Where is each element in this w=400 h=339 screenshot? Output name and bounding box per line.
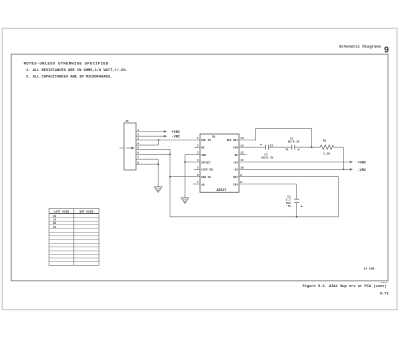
svg-text:68/6.3V: 68/6.3V (261, 156, 273, 160)
U1 unconnected stubs pins 2,5,7,12 (193, 147, 247, 184)
svg-text:R1: R1 (323, 140, 327, 143)
svg-text:P/O-3: P/O-3 (381, 281, 388, 284)
svg-text:SDH: SDH (201, 154, 206, 157)
svg-text:7: 7 (197, 181, 199, 184)
wire J1-6 tee (136, 154, 171, 156)
svg-text:3.3K: 3.3K (323, 152, 330, 155)
wire J1-2 to -VRC (136, 135, 180, 140)
wire U1 pin9 out (239, 176, 339, 178)
U1 right pin labels (227, 139, 238, 186)
svg-text:NOT USED: NOT USED (79, 211, 93, 214)
wire C2 to C3 (268, 146, 291, 148)
svg-text:Schematic Diagrams: Schematic Diagrams (339, 45, 382, 50)
svg-text:LAST USED: LAST USED (54, 211, 70, 214)
svg-text:C3: C3 (53, 215, 57, 218)
svg-text:-VRC: -VRC (172, 136, 180, 140)
header chapter number 9 (384, 45, 389, 55)
svg-text:9-73: 9-73 (380, 292, 389, 296)
svg-text:+VRC: +VRC (358, 161, 367, 165)
svg-text:8: 8 (240, 181, 242, 184)
svg-text:2. ALL CAPACITANCES ARE IN MIC: 2. ALL CAPACITANCES ARE IN MICROFARADS. (26, 75, 112, 79)
svg-text:-VS: -VS (233, 169, 238, 172)
wire bottom return bus (170, 177, 339, 217)
svg-text:J1: J1 (125, 119, 129, 123)
wire U1 pin14 buffer loop (239, 128, 312, 147)
svg-text:uB: uB (201, 183, 205, 186)
caption: Figure 9-3 (302, 284, 386, 289)
svg-text:TA: TA (285, 148, 289, 151)
wire J1-8 tee to ground net (136, 163, 159, 165)
svg-text:4: 4 (197, 159, 199, 162)
svg-text:5: 5 (197, 166, 199, 169)
wire J1-7 to ground (136, 159, 158, 187)
U1 left pin numbers (197, 137, 199, 184)
svg-text:TA: TA (287, 205, 291, 208)
svg-text:14-55B: 14-55B (364, 267, 375, 270)
frame part number 14-55B (364, 267, 375, 270)
wire U1 pin4 offset tee (184, 161, 200, 163)
op-amp U1 (AD637 rms converter) (200, 134, 239, 192)
corner tiny revision text (381, 281, 388, 284)
wire R1 to -VRC net (334, 147, 344, 170)
svg-text:1: 1 (197, 137, 199, 140)
connector J1 (120, 119, 140, 170)
svg-text:OFFSET: OFFSET (201, 161, 211, 164)
svg-text:BUF IN: BUF IN (201, 139, 211, 142)
svg-text:J1: J1 (53, 219, 57, 222)
svg-text:NE: NE (201, 147, 205, 150)
wire J1-1 to +VRC (136, 130, 180, 135)
wire U1 pin3 to ground bus (185, 155, 200, 198)
schematic frame (11, 54, 388, 281)
header: Schematic Diagrams (339, 45, 382, 50)
svg-text:10: 10 (240, 166, 244, 169)
capacitor C2 (260, 144, 274, 159)
svg-text:11: 11 (240, 159, 244, 162)
svg-text:+VRC: +VRC (172, 131, 180, 135)
wire U1 pin10 to -VRC (239, 168, 367, 173)
svg-text:9: 9 (240, 174, 242, 177)
svg-text:+: + (260, 144, 262, 148)
svg-text:BUF OUT: BUF OUT (227, 139, 238, 142)
wire sig-in tee to U1 pin6 (169, 176, 200, 178)
svg-text:12: 12 (240, 152, 244, 155)
svg-text:U1: U1 (212, 135, 216, 138)
svg-text:NOTES-UNLESS OTHERWISE SPECIFI: NOTES-UNLESS OTHERWISE SPECIFIED (24, 62, 109, 66)
svg-text:-VRC: -VRC (358, 169, 367, 173)
notes block (24, 62, 128, 79)
node junction J1-4 tie (158, 139, 160, 141)
capacitor C3 (285, 138, 300, 154)
resistor R1 (320, 140, 334, 156)
parts table (49, 208, 99, 265)
svg-text:CHIP SEL: CHIP SEL (201, 169, 214, 172)
wire U1 pin8 to C1 (239, 184, 297, 199)
ground G2 (181, 198, 189, 204)
ground G1 (154, 187, 162, 193)
svg-text:68/6.3V: 68/6.3V (288, 140, 300, 144)
U1 left pin labels (201, 139, 214, 186)
svg-text:OUT: OUT (233, 176, 238, 179)
wire J1-5 down bus (136, 149, 170, 217)
wire U1 pin11 to +VRC (239, 161, 367, 166)
svg-text:+: + (300, 205, 302, 209)
svg-text:CAV: CAV (233, 183, 238, 186)
wire J1-3 to U1 pin1 (136, 139, 200, 141)
svg-text:U1: U1 (53, 226, 57, 229)
svg-text:1. ALL RESISTANCES ARE IN OHMS: 1. ALL RESISTANCES ARE IN OHMS,1/8 WATT,… (26, 68, 128, 73)
svg-text:+VS: +VS (233, 161, 238, 164)
svg-text:AD637: AD637 (217, 188, 227, 192)
svg-text:NE: NE (235, 154, 239, 157)
wire U1 pin13 vin row (239, 146, 265, 148)
svg-text:R1: R1 (53, 222, 57, 225)
svg-text:6: 6 (197, 174, 199, 177)
svg-text:3: 3 (197, 152, 199, 155)
svg-text:+: + (298, 149, 300, 153)
capacitor C1 (286, 195, 303, 217)
svg-text:VIN: VIN (233, 147, 238, 150)
page number 9-73 (380, 292, 389, 296)
U1 right pin numbers (240, 137, 244, 184)
wire C3 to junction (295, 146, 320, 148)
svg-text:DEN IN: DEN IN (201, 176, 211, 179)
svg-text:Figure 9-3. A3A1 Sup erv sr PC: Figure 9-3. A3A1 Sup erv sr PCA (cont) (302, 284, 386, 289)
wire J1-4 up to pin3 net (136, 140, 159, 145)
svg-text:2: 2 (197, 144, 199, 147)
svg-text:14: 14 (240, 137, 244, 140)
